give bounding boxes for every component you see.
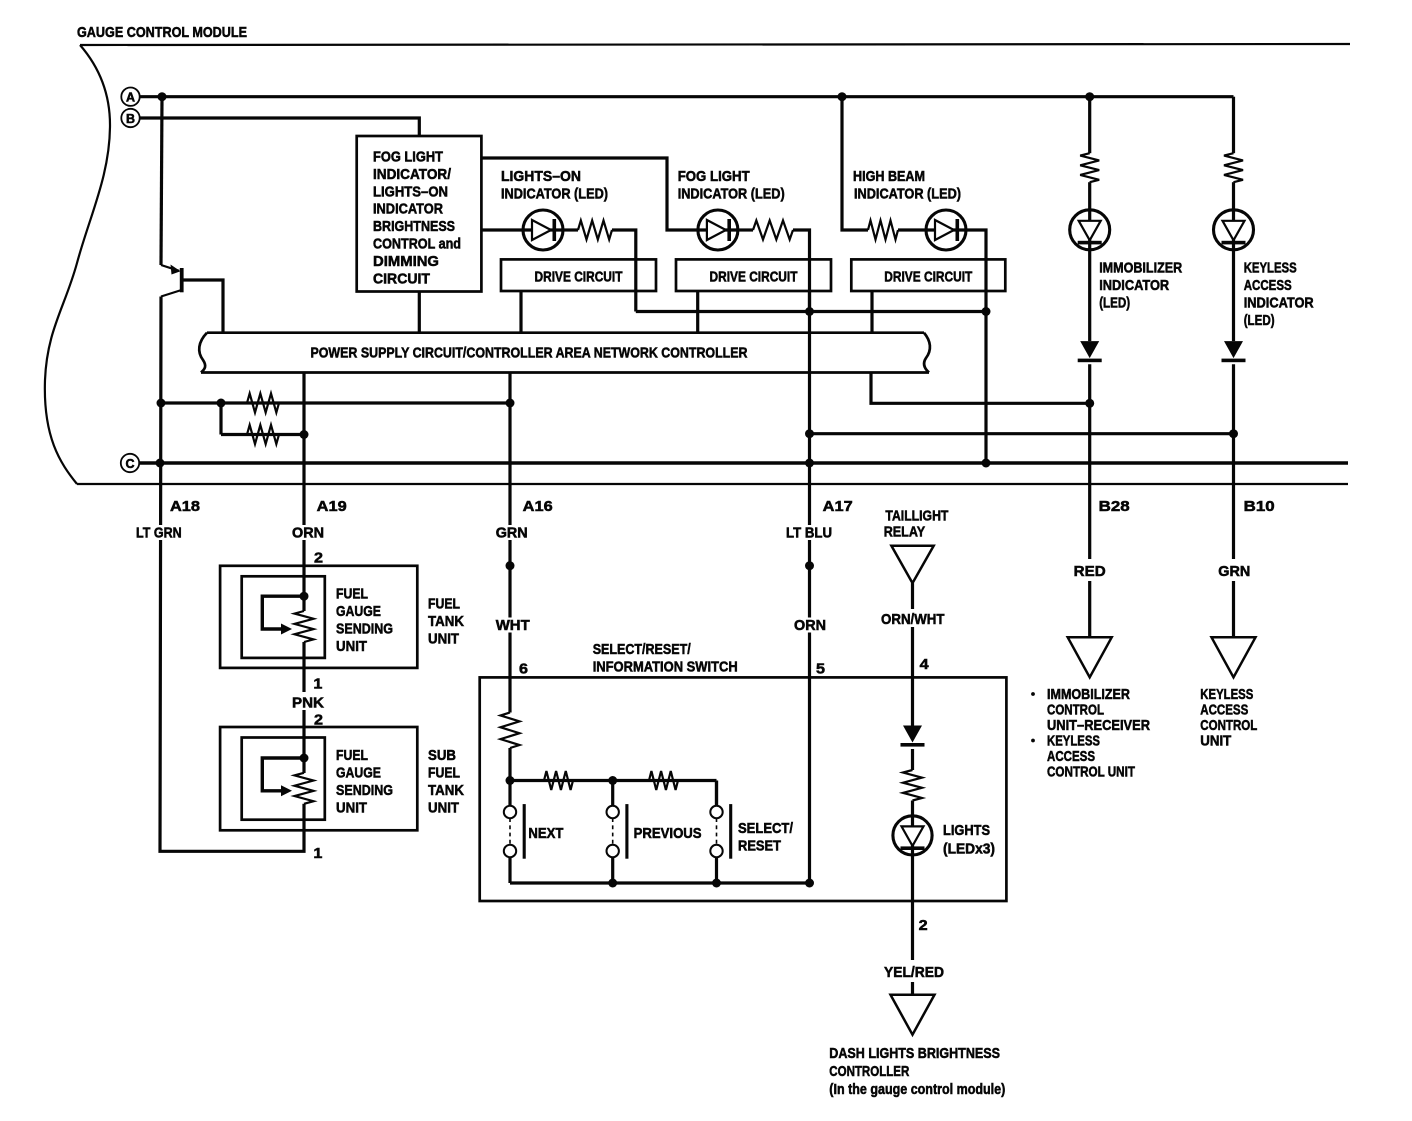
junction row1 left on A18 net [157, 399, 166, 408]
svg-text:2: 2 [919, 917, 928, 934]
svg-text:6: 6 [519, 661, 528, 678]
junction on bus C at x=986 [982, 459, 991, 468]
label pin 1 (fuel tank unit) [313, 676, 322, 693]
diode D1 (immobilizer) [1078, 341, 1102, 362]
resistor R11 (next-previous) [544, 771, 573, 790]
svg-text:A16: A16 [523, 498, 553, 515]
label connector A17 [823, 498, 853, 515]
svg-text:FUEL: FUEL [428, 765, 460, 782]
svg-text:RELAY: RELAY [884, 524, 926, 541]
svg-text:A18: A18 [170, 498, 200, 515]
svg-text:B10: B10 [1244, 498, 1275, 515]
svg-text:(LED): (LED) [1099, 295, 1130, 312]
wire pin4 to diode [911, 677, 914, 725]
wire drive circuit 1 to power supply box [519, 291, 522, 333]
svg-text:CONTROL and: CONTROL and [373, 236, 461, 253]
svg-text:KEYLESS: KEYLESS [1244, 260, 1297, 277]
wire B10 net vertical (bus A corner to arrow) [1232, 97, 1235, 638]
svg-text:RED: RED [1074, 563, 1106, 580]
label PREVIOUS [634, 825, 702, 842]
label KEYLESS ACCESS INDICATOR (LED) [1244, 260, 1314, 330]
svg-text:UNIT: UNIT [428, 800, 459, 817]
splice on A17 wire [805, 561, 814, 570]
LED lights-on indicator [523, 210, 563, 250]
svg-text:LT GRN: LT GRN [136, 525, 182, 542]
label connector A18 [170, 498, 200, 515]
svg-text:DASH LIGHTS BRIGHTNESS: DASH LIGHTS BRIGHTNESS [829, 1045, 1000, 1062]
junction on bus C at x=809.5 [805, 459, 814, 468]
LED immobilizer indicator [1070, 210, 1110, 250]
svg-text:1: 1 [313, 845, 322, 862]
wire A17 to B10 net (y=433.7) [810, 432, 1234, 435]
node A (connector pin circle) [121, 88, 139, 106]
svg-text:2: 2 [314, 550, 323, 567]
svg-text:GRN: GRN [1218, 563, 1250, 580]
drive circuit box 1 (lights-on) [501, 259, 656, 291]
node C (connector pin circle) [121, 454, 139, 472]
svg-text:YEL/RED: YEL/RED [884, 964, 944, 981]
svg-text:GAUGE: GAUGE [336, 765, 381, 782]
label wire color LT GRN [134, 525, 184, 542]
junction on bus C at x=160 [156, 459, 165, 468]
svg-text:4: 4 [920, 656, 930, 673]
sub fuel tank unit outer box [220, 727, 417, 830]
wire sub fuel gauge output pin 1 [302, 804, 305, 831]
svg-text:FOG LIGHT: FOG LIGHT [373, 149, 443, 166]
junction on B28 net at y=403.3 [1085, 399, 1094, 408]
resistor R9 (keyless) [1224, 153, 1243, 182]
module label GAUGE CONTROL MODULE [77, 24, 247, 41]
label wire color GRN (A16) [494, 525, 530, 542]
label LIGHTS (LEDx3) [943, 822, 995, 858]
svg-text:DRIVE CIRCUIT: DRIVE CIRCUIT [710, 269, 798, 286]
splice on A16 wire [506, 561, 515, 570]
wire high beam resistor to LED [898, 228, 926, 231]
label KEYLESS ACCESS CONTROL UNIT [1200, 686, 1257, 750]
label TAILLIGHT RELAY [884, 508, 949, 541]
module bottom border [77, 483, 1348, 485]
LED keyless access indicator [1214, 210, 1254, 250]
junction bottom bus at previous [608, 879, 617, 888]
svg-text:INDICATOR (LED): INDICATOR (LED) [854, 186, 961, 203]
junction fuel gauge wiper node [300, 592, 309, 601]
svg-text:INDICATOR/: INDICATOR/ [373, 166, 452, 183]
wire fog LED chain to drive circuit 2 [738, 230, 810, 312]
label SUB FUEL TANK UNIT [428, 747, 464, 817]
resistor R12 (previous-select) [649, 771, 678, 790]
svg-text:FUEL: FUEL [336, 586, 368, 603]
arrow to keyless access control unit [1212, 637, 1256, 677]
svg-text:CONTROL: CONTROL [1047, 702, 1104, 719]
svg-text:GAUGE: GAUGE [336, 603, 381, 620]
wire fuel gauge output pin 1 [302, 642, 305, 692]
svg-text:GRN: GRN [496, 525, 528, 542]
label connector B10 [1244, 498, 1275, 515]
svg-text:POWER SUPPLY CIRCUIT/CONTROLLE: POWER SUPPLY CIRCUIT/CONTROLLER AREA NET… [311, 345, 748, 362]
svg-text:DRIVE CIRCUIT: DRIVE CIRCUIT [535, 269, 623, 286]
junction row1 right on A16 net [506, 399, 515, 408]
svg-text:FOG LIGHT: FOG LIGHT [678, 168, 750, 185]
junction top bus at previous [608, 776, 617, 785]
resistor R4 [247, 394, 279, 413]
transistor Q1 base bar [180, 268, 184, 292]
module left torn edge (wavy) [45, 45, 110, 484]
label wire color ORN (A17) [792, 617, 828, 634]
arrow to dash lights brightness controller [891, 995, 935, 1035]
svg-text:ACCESS: ACCESS [1047, 748, 1095, 765]
junction row1 at x=221 [217, 399, 226, 408]
diode D2 (keyless) [1222, 341, 1246, 362]
svg-text:5: 5 [816, 661, 825, 678]
svg-text:HIGH BEAM: HIGH BEAM [853, 168, 925, 185]
svg-text:INDICATOR (LED): INDICATOR (LED) [501, 186, 608, 203]
power supply box label [311, 345, 748, 362]
label pin 5 [816, 661, 825, 678]
junction on bus A at x=842 [838, 92, 847, 101]
svg-text:ACCESS: ACCESS [1244, 277, 1292, 294]
junction high beam net at y=311.5 [982, 307, 991, 316]
svg-text:TANK: TANK [428, 613, 464, 630]
svg-text:LIGHTS–ON: LIGHTS–ON [501, 168, 581, 185]
svg-text:UNIT: UNIT [1200, 733, 1231, 750]
select/reset/information switch box [480, 677, 1007, 901]
label IMMOBILIZER INDICATOR (LED) [1099, 260, 1182, 312]
wire transistor base to power supply box [184, 280, 224, 333]
fog light/lights-on brightness control box U1 [357, 136, 482, 292]
resistor R13 (lights) [903, 770, 922, 801]
svg-text:UNIT–RECEIVER: UNIT–RECEIVER [1047, 717, 1150, 734]
label LIGHTS-ON INDICATOR (LED) [501, 168, 608, 203]
svg-text:1: 1 [313, 676, 322, 693]
wire PNK to sub fuel unit [302, 710, 305, 758]
svg-text:SELECT/: SELECT/ [738, 820, 794, 837]
svg-text:ACCESS: ACCESS [1200, 702, 1248, 719]
svg-text:IMMOBILIZER: IMMOBILIZER [1099, 260, 1182, 277]
transistor Q1 emitter diagonal with arrow [161, 265, 181, 275]
label wire color GRN (B10) [1216, 563, 1252, 580]
bus C wire [139, 461, 1348, 465]
LED lights (LEDx3) [893, 816, 932, 855]
svg-text:FUEL: FUEL [336, 747, 368, 764]
resistor R6 (fuel gauge sender) [295, 611, 314, 642]
wire A18 net upper (bus A down to transistor) [161, 97, 162, 265]
resistor R2 (fog light) [753, 221, 793, 240]
svg-text:SUB: SUB [428, 747, 456, 764]
svg-text:LIGHTS–ON: LIGHTS–ON [373, 183, 448, 200]
junction drive circuit 2 output [805, 307, 814, 316]
arrow to immobilizer control unit [1068, 637, 1112, 677]
wire A17 net (drive circuit 2 down to switch) [808, 291, 811, 883]
LED fog light indicator [698, 210, 738, 250]
svg-text:UNIT: UNIT [336, 800, 367, 817]
power supply box top edge [207, 331, 924, 334]
svg-text:SENDING: SENDING [336, 782, 393, 799]
svg-text:B28: B28 [1099, 498, 1130, 515]
label SUB FUEL GAUGE SENDING UNIT [336, 747, 393, 817]
label wire color YEL/RED [882, 964, 946, 981]
svg-text:IMMOBILIZER: IMMOBILIZER [1047, 686, 1130, 703]
svg-text:BRIGHTNESS: BRIGHTNESS [373, 218, 455, 235]
label connector B28 [1099, 498, 1130, 515]
fuel gauge wiper loop with arrow [262, 596, 304, 634]
svg-text:INFORMATION SWITCH: INFORMATION SWITCH [593, 659, 738, 676]
resistor R3 (high beam) [868, 221, 898, 240]
label connector A16 [523, 498, 553, 515]
wire lights-on LED chain to drive circuit 1 [563, 230, 636, 312]
wire power supply to B28 net (y=403.3) [871, 373, 1090, 404]
svg-text:(In the gauge control module): (In the gauge control module) [829, 1081, 1005, 1098]
wire drive circuit 3 to power supply box [870, 291, 873, 333]
label FUEL GAUGE SENDING UNIT [336, 586, 393, 656]
svg-text:INDICATOR: INDICATOR [1099, 277, 1169, 294]
svg-text:CIRCUIT: CIRCUIT [373, 270, 430, 287]
svg-text:(LED): (LED) [1244, 312, 1275, 329]
bullet list immobilizer/keyless control units [1031, 686, 1150, 781]
switch top bus wire [510, 781, 717, 807]
svg-text:CONTROLLER: CONTROLLER [829, 1063, 909, 1080]
wire into sub fuel gauge [302, 727, 305, 773]
label HIGH BEAM INDICATOR (LED) [853, 168, 961, 203]
label connector A19 [317, 498, 347, 515]
svg-text:DRIVE CIRCUIT: DRIVE CIRCUIT [884, 269, 972, 286]
svg-text:SELECT/RESET/: SELECT/RESET/ [593, 641, 692, 658]
label pin 1 (sub fuel tank unit) [313, 845, 322, 862]
svg-text:WHT: WHT [496, 617, 530, 634]
resistor R1 (lights-on) [578, 221, 612, 240]
label wire color WHT [494, 617, 532, 634]
sub fuel gauge wiper loop with arrow [262, 758, 304, 796]
resistor R10 (switch pullup) [501, 677, 520, 780]
switch bottom bus wire [510, 881, 810, 884]
wire fog box bottom to power supply box [418, 292, 421, 333]
wire resistor to lights LED [911, 801, 914, 816]
junction on B10 net at y=433.7 [1229, 429, 1238, 438]
module top border [80, 44, 1350, 45]
wire taillight relay to switch box [911, 583, 914, 677]
resistor R8 (immobilizer) [1080, 153, 1099, 182]
label wire color ORN (A19) [290, 525, 326, 542]
label wire color RED [1072, 563, 1108, 580]
svg-text:RESET: RESET [738, 838, 781, 855]
label pin 4 [920, 656, 930, 673]
svg-text:A: A [126, 91, 135, 105]
drive circuit box 3 (high beam) [851, 259, 1005, 291]
svg-text:GAUGE CONTROL MODULE: GAUGE CONTROL MODULE [77, 24, 247, 41]
svg-text:(LEDx3): (LEDx3) [943, 841, 995, 858]
wire high beam LED down to bus C [966, 230, 986, 463]
label pin 2 (sub fuel tank unit) [314, 712, 323, 729]
node B (connector pin circle) [121, 109, 139, 127]
wire fog box to fog LED (top output) [481, 158, 698, 230]
svg-text:C: C [125, 457, 134, 471]
drive circuit box 2 (fog light) [676, 259, 831, 291]
power supply box right torn edge [924, 333, 930, 373]
switch SW3 SELECT/RESET [710, 781, 732, 884]
svg-text:INDICATOR (LED): INDICATOR (LED) [678, 186, 785, 203]
svg-text:NEXT: NEXT [528, 825, 563, 842]
switch SW2 PREVIOUS [607, 781, 629, 884]
transistor Q1 collector diagonal [161, 290, 182, 297]
svg-text:CONTROL UNIT: CONTROL UNIT [1047, 764, 1135, 781]
svg-text:INDICATOR: INDICATOR [373, 201, 443, 218]
svg-text:FUEL: FUEL [428, 596, 460, 613]
wire A18 net lower (transistor to fuel tank pin 1) [160, 297, 304, 852]
label FUEL TANK UNIT [428, 596, 464, 648]
label pin 2 (fuel tank unit) [314, 550, 323, 567]
svg-text:KEYLESS: KEYLESS [1047, 733, 1100, 750]
svg-text:PNK: PNK [292, 695, 324, 712]
wire bus A to high beam resistor [842, 97, 868, 230]
wire row1 to row2 link [219, 403, 222, 435]
label NEXT [528, 825, 563, 842]
label pin 6 [519, 661, 528, 678]
wire drive circuit outputs horizontal net y=311.5 [636, 310, 986, 313]
label FOG LIGHT INDICATOR (LED) [678, 168, 785, 203]
resistor R5 [247, 425, 279, 444]
resistor row 1 wire [161, 401, 510, 404]
svg-text:INDICATOR: INDICATOR [1244, 295, 1314, 312]
svg-text:UNIT: UNIT [336, 638, 367, 655]
wire A19 net (power supply to fuel gauge) [302, 373, 305, 597]
svg-text:ORN/WHT: ORN/WHT [881, 611, 945, 628]
svg-text:PREVIOUS: PREVIOUS [634, 825, 702, 842]
power supply box bottom edge [201, 371, 929, 374]
fuel gauge sending unit inner box [242, 576, 325, 658]
svg-text:B: B [126, 112, 135, 126]
svg-text:LIGHTS: LIGHTS [943, 822, 990, 839]
svg-text:DIMMING: DIMMING [373, 253, 439, 270]
junction top bus at A16 [506, 776, 515, 785]
svg-text:TAILLIGHT: TAILLIGHT [885, 508, 948, 525]
wire lights LED to dash controller arrow [911, 855, 914, 995]
fuel tank unit outer box [220, 566, 417, 668]
svg-text:LT BLU: LT BLU [786, 525, 832, 542]
wire B28 net vertical (bus A to arrow) [1088, 97, 1091, 638]
svg-text:ORN: ORN [794, 617, 826, 634]
bus B wire [140, 118, 420, 136]
svg-text:A19: A19 [317, 498, 347, 515]
sub fuel gauge sending unit inner box [242, 738, 325, 820]
diode D3 (lights) [901, 726, 925, 747]
svg-text:TANK: TANK [428, 782, 464, 799]
junction row2 right on A19 net [300, 430, 309, 439]
junction A17 net at y=433.7 [805, 429, 814, 438]
svg-text:SENDING: SENDING [336, 621, 393, 638]
switch SW1 NEXT [504, 781, 526, 884]
junction bottom bus at select/reset [712, 879, 721, 888]
label wire color ORN/WHT [879, 611, 947, 628]
svg-text:A17: A17 [823, 498, 853, 515]
label pin 2 (lights out) [919, 917, 928, 934]
bus A wire [140, 95, 1234, 98]
wire fog box to lights-on LED [481, 228, 523, 231]
LED high beam indicator [926, 210, 966, 250]
label wire color PNK [290, 695, 326, 712]
label SELECT/RESET [738, 820, 794, 855]
junction on bus A at x=162 [158, 92, 167, 101]
label wire color LT BLU [784, 525, 834, 542]
power supply box left torn edge [199, 333, 207, 373]
junction sub fuel gauge wiper node [300, 754, 309, 763]
junction on bus A at x=1089.7 [1085, 92, 1094, 101]
resistor R7 (sub fuel gauge sender) [295, 773, 314, 804]
svg-text:CONTROL: CONTROL [1200, 717, 1257, 734]
wire A19 into fuel gauge [302, 566, 305, 611]
label SELECT/RESET/INFORMATION SWITCH [593, 641, 738, 676]
svg-text:KEYLESS: KEYLESS [1200, 686, 1253, 703]
label DASH LIGHTS BRIGHTNESS CONTROLLER [829, 1045, 1005, 1098]
resistor row 2 wire [221, 433, 304, 436]
wire drive circuit 2 to power supply box [696, 291, 699, 333]
arrow from taillight relay [891, 546, 933, 583]
svg-text:ORN: ORN [292, 525, 324, 542]
svg-text:UNIT: UNIT [428, 631, 459, 648]
wire A16 net (power supply to switch) [508, 373, 511, 678]
wire diode to resistor [911, 749, 914, 770]
junction bottom bus at A17 [805, 879, 814, 888]
